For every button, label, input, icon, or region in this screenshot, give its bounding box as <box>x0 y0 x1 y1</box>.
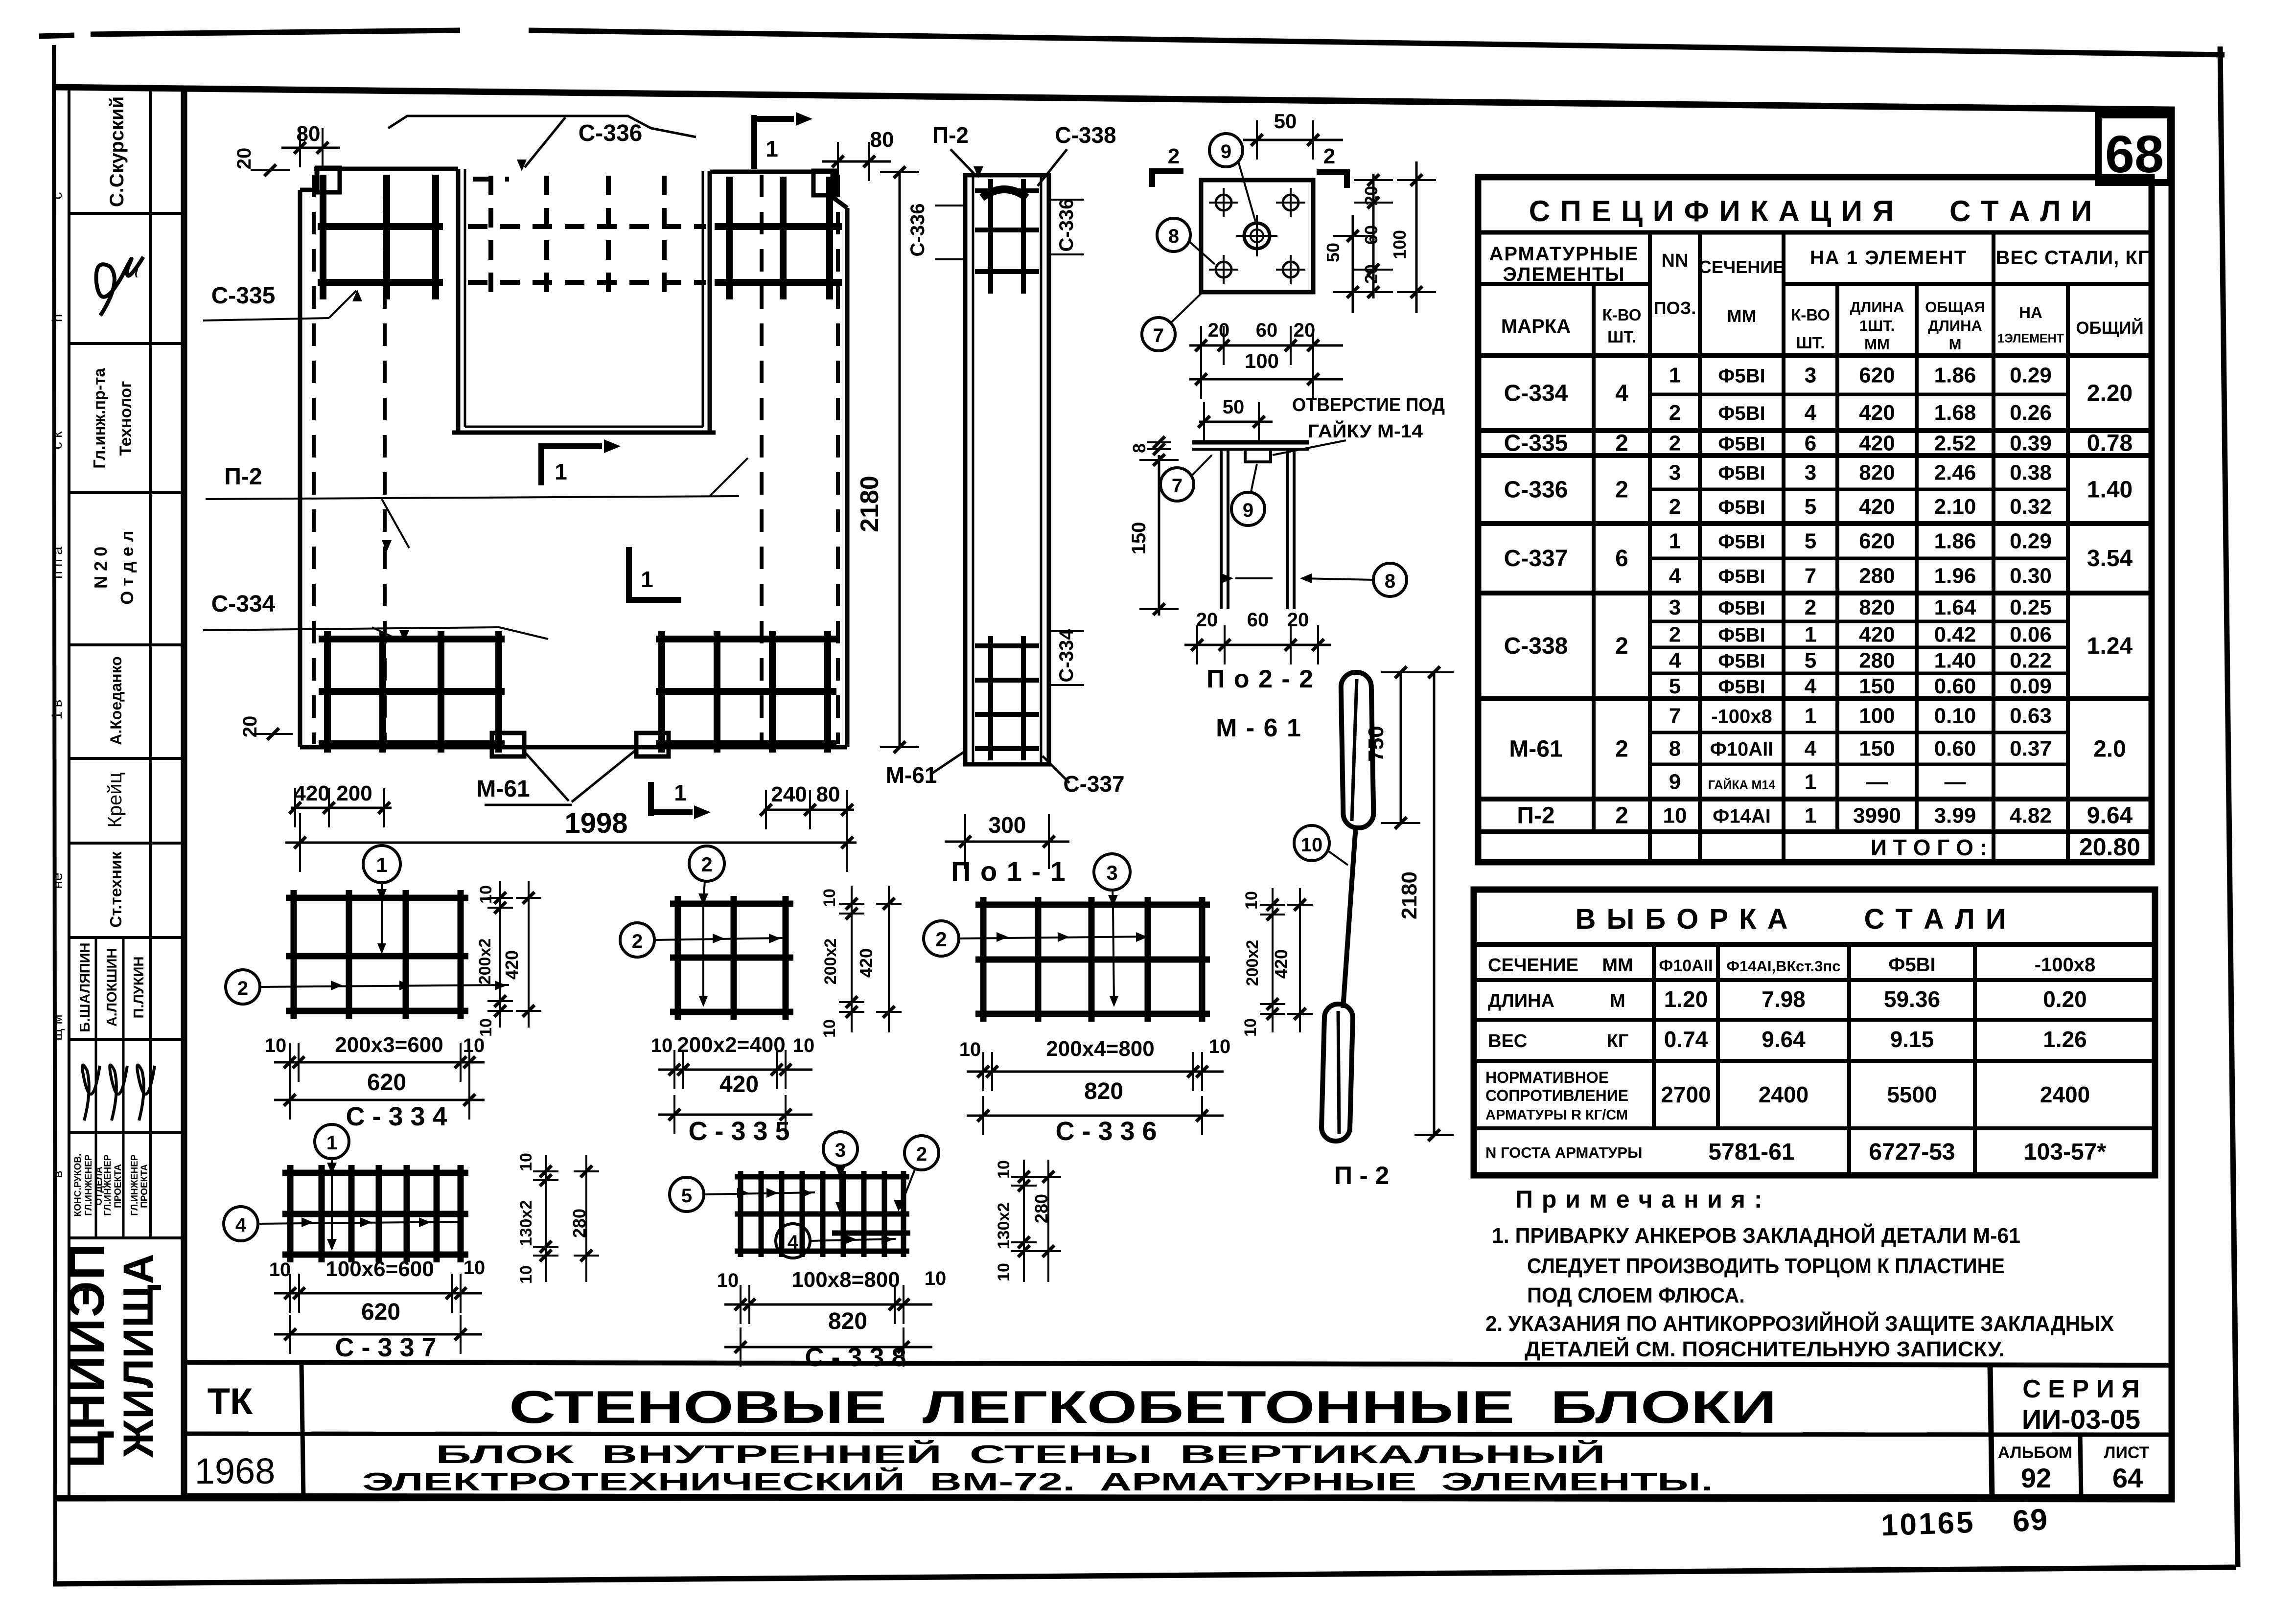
svg-text:200x2: 200x2 <box>476 938 494 985</box>
svg-text:4.82: 4.82 <box>2010 804 2052 828</box>
svg-text:10: 10 <box>820 889 839 907</box>
svg-text:1ЭЛЕМЕНТ: 1ЭЛЕМЕНТ <box>1997 332 2064 345</box>
svg-text:1: 1 <box>1805 770 1816 794</box>
svg-text:1ШТ.: 1ШТ. <box>1859 317 1895 334</box>
svg-text:М-61: М-61 <box>476 776 530 802</box>
svg-text:1: 1 <box>1805 804 1816 828</box>
svg-text:КОНС.РУКОВ.: КОНС.РУКОВ. <box>73 1154 83 1217</box>
svg-text:С-337: С-337 <box>1504 546 1568 572</box>
svg-text:820: 820 <box>1859 461 1895 485</box>
svg-text:С-334: С-334 <box>211 591 276 617</box>
svg-text:69: 69 <box>2012 1503 2050 1539</box>
svg-text:1.64: 1.64 <box>1934 595 1976 619</box>
svg-text:420: 420 <box>1859 495 1895 519</box>
svg-text:БЛОК ВНУТРЕННЕЙ СТЕНЫ ВЕРТИ: БЛОК ВНУТРЕННЕЙ СТЕНЫ ВЕРТИКАЛЬНЫЙ <box>436 1440 1605 1469</box>
svg-text:10: 10 <box>925 1268 947 1289</box>
svg-text:не: не <box>49 872 66 889</box>
title block bottom line <box>54 1497 2172 1498</box>
svg-text:1 в: 1 в <box>49 700 65 720</box>
svg-text:С-336: С-336 <box>907 204 928 257</box>
svg-text:620: 620 <box>1859 364 1895 388</box>
svg-text:с к: с к <box>49 431 65 449</box>
sheet bottom edge line <box>53 1567 2236 1584</box>
svg-text:4: 4 <box>1669 649 1681 673</box>
По 1-1 top mesh bars <box>975 188 1039 193</box>
svg-text:ЭЛЕМЕНТЫ: ЭЛЕМЕНТЫ <box>1503 264 1625 285</box>
svg-text:2.46: 2.46 <box>1934 461 1976 485</box>
mesh С-335 top-left horizontals <box>318 223 443 230</box>
svg-text:С - 3 3 8: С - 3 3 8 <box>805 1343 906 1372</box>
svg-text:П-2: П-2 <box>224 464 262 490</box>
stamp signatures <box>82 1065 100 1121</box>
svg-text:9: 9 <box>1669 770 1681 794</box>
svg-text:НА: НА <box>2019 303 2042 321</box>
svg-text:М: М <box>1949 336 1962 353</box>
С-338 circle 4 <box>776 1224 810 1258</box>
svg-text:750: 750 <box>1364 726 1388 761</box>
svg-text:щ м: щ м <box>49 1014 65 1041</box>
svg-text:2: 2 <box>1615 736 1628 762</box>
svg-text:ПРОЕКТА: ПРОЕКТА <box>139 1164 150 1208</box>
svg-text:Ф10АII: Ф10АII <box>1710 739 1774 760</box>
svg-text:М-61: М-61 <box>886 762 937 788</box>
svg-text:ЭЛЕКТРОТЕХНИЧЕСКИЙ ВМ-72. АР: ЭЛЕКТРОТЕХНИЧЕСКИЙ ВМ-72. АРМАТУРНЫЕ ЭЛЕ… <box>362 1467 1713 1496</box>
svg-text:ДЛИНА: ДЛИНА <box>1928 317 1982 334</box>
svg-text:9.64: 9.64 <box>2087 803 2133 829</box>
stamp names Шаляпин Локшин Лукин <box>95 938 97 1133</box>
svg-text:20: 20 <box>233 148 255 170</box>
svg-text:10: 10 <box>464 1257 486 1279</box>
svg-text:1.40: 1.40 <box>2087 477 2133 503</box>
svg-text:0.39: 0.39 <box>2010 432 2052 456</box>
top-left corner plate <box>317 168 340 192</box>
svg-text:0.78: 0.78 <box>2087 431 2133 457</box>
svg-text:ПОД СЛОЕМ ФЛЮСА.: ПОД СЛОЕМ ФЛЮСА. <box>1527 1283 1745 1307</box>
svg-text:К-ВО: К-ВО <box>1791 306 1830 324</box>
svg-text:2180: 2180 <box>1397 871 1421 919</box>
svg-text:5: 5 <box>1805 649 1816 673</box>
svg-text:6727-53: 6727-53 <box>1869 1139 1955 1165</box>
svg-text:Ф5ВI: Ф5ВI <box>1718 625 1765 646</box>
svg-text:2: 2 <box>916 1144 927 1165</box>
svg-text:1: 1 <box>555 459 567 484</box>
svg-text:С - 3 3 7: С - 3 3 7 <box>335 1333 436 1362</box>
П-2 dashed bar right outer <box>836 175 840 744</box>
С-338 extra partial bar <box>832 1231 910 1236</box>
panel outline right edge <box>845 208 850 747</box>
svg-text:Технолог: Технолог <box>116 381 135 456</box>
П-2 hairpin bottom loop inner wire <box>1338 1011 1339 1134</box>
svg-text:ПОЗ.: ПОЗ. <box>1654 298 1696 318</box>
М-61 label circle 7 <box>1142 318 1175 351</box>
svg-text:П о 1 - 1: П о 1 - 1 <box>951 856 1066 887</box>
svg-text:130x2: 130x2 <box>517 1200 535 1247</box>
sheet number box 68 <box>2098 115 2171 183</box>
svg-text:И Т О Г О :: И Т О Г О : <box>1871 835 1987 860</box>
svg-text:0.60: 0.60 <box>1934 674 1976 698</box>
svg-text:200x2=400: 200x2=400 <box>677 1033 785 1057</box>
stamp column vertical lines <box>68 88 70 1496</box>
С-336 circle 3 top <box>1094 854 1130 890</box>
frame top line extension over stamp column <box>53 87 184 89</box>
svg-text:0.60: 0.60 <box>1934 737 1976 761</box>
П-2 hairpin top loop inner wire <box>1352 679 1357 821</box>
svg-text:150: 150 <box>1859 674 1895 698</box>
svg-text:4: 4 <box>788 1232 799 1253</box>
svg-text:Ф14АI: Ф14АI <box>1713 806 1771 827</box>
svg-text:5: 5 <box>1805 529 1816 553</box>
svg-text:20: 20 <box>1294 320 1316 341</box>
svg-text:100x6=600: 100x6=600 <box>325 1257 434 1281</box>
С-336 circle 2 left <box>924 921 959 956</box>
svg-text:С-334: С-334 <box>1056 629 1077 683</box>
svg-text:2: 2 <box>1615 633 1628 659</box>
svg-text:0.25: 0.25 <box>2010 595 2052 619</box>
svg-text:240: 240 <box>771 782 807 806</box>
svg-text:150: 150 <box>1859 737 1895 761</box>
svg-text:9.64: 9.64 <box>1762 1027 1806 1052</box>
П-2 dashed bar left outer <box>312 175 316 744</box>
svg-text:3: 3 <box>1669 461 1681 485</box>
П-2 dim 750 <box>1400 672 1402 823</box>
svg-text:0.63: 0.63 <box>2010 704 2052 728</box>
panel outline top edge right segment <box>710 170 834 174</box>
svg-text:2: 2 <box>1615 477 1628 503</box>
svg-text:9: 9 <box>1221 141 1231 162</box>
svg-text:1: 1 <box>641 567 653 592</box>
svg-text:10: 10 <box>1209 1036 1231 1057</box>
svg-text:10: 10 <box>517 1153 535 1171</box>
svg-text:Ф5ВI: Ф5ВI <box>1888 954 1935 976</box>
svg-text:П-2: П-2 <box>1517 803 1554 829</box>
М-61 center nut <box>1244 223 1270 249</box>
svg-text:7.98: 7.98 <box>1762 986 1806 1012</box>
svg-text:420: 420 <box>1859 623 1895 647</box>
svg-text:9.15: 9.15 <box>1890 1027 1934 1052</box>
svg-text:Крейц: Крейц <box>104 772 126 827</box>
svg-text:50: 50 <box>1323 243 1343 262</box>
svg-text:1: 1 <box>674 780 687 805</box>
svg-text:1.86: 1.86 <box>1934 364 1976 388</box>
svg-text:5: 5 <box>681 1185 692 1207</box>
svg-text:СОПРОТИВЛЕНИЕ: СОПРОТИВЛЕНИЕ <box>1485 1087 1628 1104</box>
М-61 label circle 8 <box>1157 218 1190 252</box>
М-61 leader V <box>524 752 569 801</box>
title block mid line <box>184 1434 2172 1435</box>
diagram С-336 mesh <box>980 897 987 1022</box>
svg-text:С-335: С-335 <box>1504 431 1568 457</box>
svg-text:С-338: С-338 <box>1055 122 1116 148</box>
svg-text:1.40: 1.40 <box>1934 649 1976 673</box>
svg-text:С-336: С-336 <box>1056 199 1077 252</box>
svg-text:2: 2 <box>632 931 643 952</box>
svg-text:А.ЛОКШИН: А.ЛОКШИН <box>104 948 120 1027</box>
svg-text:Ф10АII: Ф10АII <box>1659 957 1713 975</box>
svg-text:0.26: 0.26 <box>2010 401 2052 425</box>
svg-text:130x2: 130x2 <box>995 1203 1013 1249</box>
mesh top-right verticals <box>726 177 733 299</box>
svg-text:АЛЬБОМ: АЛЬБОМ <box>1998 1443 2072 1462</box>
svg-text:1998: 1998 <box>564 807 627 839</box>
svg-text:0.30: 0.30 <box>2010 564 2052 588</box>
svg-text:3: 3 <box>1805 461 1816 485</box>
svg-text:ДЛИНА: ДЛИНА <box>1850 298 1904 316</box>
svg-text:280: 280 <box>1859 649 1895 673</box>
svg-text:200: 200 <box>336 781 372 805</box>
svg-text:Ф5ВI: Ф5ВI <box>1718 366 1765 387</box>
svg-text:Ф5ВI: Ф5ВI <box>1718 531 1765 553</box>
svg-text:Ф5ВI: Ф5ВI <box>1718 463 1765 484</box>
svg-text:1: 1 <box>1669 364 1681 388</box>
svg-text:АРМАТУРЫ R КГ/СМ: АРМАТУРЫ R КГ/СМ <box>1485 1107 1628 1123</box>
svg-text:10: 10 <box>463 1035 485 1056</box>
svg-text:П.ЛУКИН: П.ЛУКИН <box>131 957 147 1019</box>
svg-text:ГЛ.ИНЖЕНЕР: ГЛ.ИНЖЕНЕР <box>103 1154 113 1216</box>
svg-text:5: 5 <box>1805 495 1816 519</box>
svg-text:4: 4 <box>1805 674 1817 698</box>
svg-text:М-61: М-61 <box>1509 736 1562 762</box>
section mark 1 bottom <box>648 782 654 816</box>
svg-text:Гл.инж.пр-та: Гл.инж.пр-та <box>90 368 108 469</box>
svg-text:2: 2 <box>237 978 248 999</box>
svg-text:С-334: С-334 <box>1504 381 1568 407</box>
svg-text:Ф5ВI: Ф5ВI <box>1718 566 1765 588</box>
svg-text:620: 620 <box>361 1299 400 1325</box>
М-61 side circle 9 <box>1231 492 1265 526</box>
svg-text:60: 60 <box>1247 609 1269 631</box>
svg-text:620: 620 <box>367 1070 406 1096</box>
section mark 2 right of М-61 <box>1344 169 1350 188</box>
svg-text:2. УКАЗАНИЯ ПО АНТИКОРРОЗИЙНОЙ: 2. УКАЗАНИЯ ПО АНТИКОРРОЗИЙНОЙ ЗАЩИТЕ ЗА… <box>1485 1311 2114 1336</box>
svg-text:2: 2 <box>1669 401 1681 425</box>
svg-text:10: 10 <box>717 1270 739 1291</box>
svg-text:1: 1 <box>376 853 387 876</box>
С-334 circle 1 <box>363 846 400 883</box>
svg-text:100: 100 <box>1390 230 1410 259</box>
svg-text:ММ: ММ <box>1727 306 1757 326</box>
svg-text:100x8=800: 100x8=800 <box>791 1268 900 1292</box>
svg-text:П - 2: П - 2 <box>1334 1162 1390 1190</box>
svg-text:С-337: С-337 <box>1063 771 1124 797</box>
svg-text:ТК: ТК <box>208 1381 253 1422</box>
svg-text:А.Коеданко: А.Коеданко <box>107 656 125 745</box>
svg-text:П р и м е ч а н и я :: П р и м е ч а н и я : <box>1515 1186 1763 1213</box>
svg-text:200x3=600: 200x3=600 <box>335 1033 443 1057</box>
По 1-1 bottom mesh bars <box>975 643 1039 648</box>
svg-text:Ф14АI,ВКст.3пс: Ф14АI,ВКст.3пс <box>1727 958 1841 975</box>
svg-text:0.20: 0.20 <box>2043 986 2087 1012</box>
М-61 side view legs <box>1220 449 1223 609</box>
svg-text:420: 420 <box>1859 401 1895 425</box>
svg-text:4: 4 <box>1805 737 1817 761</box>
svg-text:200x2: 200x2 <box>1243 940 1262 986</box>
sheet left edge line <box>54 45 55 1585</box>
svg-text:ОТВЕРСТИЕ ПОД: ОТВЕРСТИЕ ПОД <box>1292 395 1445 415</box>
svg-text:20: 20 <box>1208 320 1230 341</box>
section mark 1 lower-mid <box>626 547 632 603</box>
svg-text:АРМАТУРНЫЕ: АРМАТУРНЫЕ <box>1489 243 1639 265</box>
svg-text:10: 10 <box>651 1035 673 1056</box>
diagram С-337 mesh <box>287 1165 294 1262</box>
svg-text:10: 10 <box>995 1263 1013 1281</box>
svg-text:ММ: ММ <box>1602 955 1633 976</box>
П-2 dashed bar left inner <box>383 175 387 744</box>
svg-text:103-57*: 103-57* <box>2024 1139 2106 1165</box>
svg-text:1.26: 1.26 <box>2043 1027 2087 1052</box>
svg-text:50: 50 <box>1274 110 1297 133</box>
svg-text:420: 420 <box>1859 432 1895 456</box>
svg-text:ОБЩИЙ: ОБЩИЙ <box>2076 318 2143 338</box>
panel outline top edge left segment <box>314 167 458 171</box>
svg-text:5781-61: 5781-61 <box>1708 1139 1794 1165</box>
svg-text:~: ~ <box>124 265 150 278</box>
svg-text:п п а: п п а <box>49 547 66 579</box>
spec table СПЕЦИФИКАЦИЯ СТАЛИ <box>1478 177 2152 862</box>
svg-text:64: 64 <box>2112 1463 2143 1493</box>
svg-text:80: 80 <box>870 128 894 152</box>
panel outline bottom edge <box>300 745 847 750</box>
svg-text:3990: 3990 <box>1853 804 1901 828</box>
svg-text:4: 4 <box>1805 401 1817 425</box>
svg-text:92: 92 <box>2021 1463 2051 1493</box>
П-2 dim 2180 <box>1433 672 1436 1135</box>
svg-text:П-2: П-2 <box>932 122 969 148</box>
svg-text:2: 2 <box>935 928 947 951</box>
svg-text:20.80: 20.80 <box>2079 833 2140 861</box>
svg-text:ШТ.: ШТ. <box>1796 334 1825 352</box>
svg-text:2: 2 <box>1669 432 1681 456</box>
svg-text:Ф5ВI: Ф5ВI <box>1718 434 1765 455</box>
stamp signature squiggle <box>96 257 143 316</box>
diagram С-338 mesh <box>738 1171 743 1257</box>
svg-text:10: 10 <box>269 1259 291 1281</box>
svg-text:СЕЧЕНИЕ: СЕЧЕНИЕ <box>1488 955 1578 976</box>
С-337 circle 1 <box>315 1124 349 1159</box>
svg-text:2400: 2400 <box>2040 1082 2090 1107</box>
svg-text:СЕЧЕНИЕ: СЕЧЕНИЕ <box>1699 257 1785 277</box>
svg-text:4: 4 <box>235 1214 247 1236</box>
svg-text:820: 820 <box>1859 595 1895 619</box>
svg-text:0.06: 0.06 <box>2010 623 2052 647</box>
title block top line <box>184 1362 2172 1365</box>
svg-text:7: 7 <box>1805 564 1816 588</box>
С-337 circle 4 <box>224 1207 258 1241</box>
svg-text:10: 10 <box>265 1035 287 1056</box>
svg-text:С-338: С-338 <box>1504 633 1568 659</box>
svg-text:О т д е л: О т д е л <box>117 530 137 604</box>
mesh С-336 dashed horizontals <box>468 224 706 229</box>
notch opening bottom double line <box>452 431 716 435</box>
svg-text:Ф5ВI: Ф5ВI <box>1718 597 1765 619</box>
svg-text:С - 3 3 6: С - 3 3 6 <box>1055 1117 1157 1146</box>
М-61 label circle 9 <box>1209 134 1243 167</box>
svg-text:8: 8 <box>1669 737 1681 761</box>
svg-text:7: 7 <box>1669 704 1681 728</box>
svg-text:ИИ-03-05: ИИ-03-05 <box>2022 1404 2140 1435</box>
svg-text:1: 1 <box>1805 623 1816 647</box>
svg-text:-100x8: -100x8 <box>1711 706 1772 728</box>
svg-text:100: 100 <box>1859 704 1895 728</box>
svg-text:2: 2 <box>1805 595 1816 619</box>
svg-text:10: 10 <box>517 1265 535 1284</box>
svg-text:НОРМАТИВНОЕ: НОРМАТИВНОЕ <box>1485 1069 1609 1086</box>
svg-text:С.Скурский: С.Скурский <box>106 96 128 207</box>
section mark 1 mid-panel right <box>538 443 544 485</box>
svg-text:ДЛИНА: ДЛИНА <box>1488 991 1554 1011</box>
svg-text:80: 80 <box>816 782 840 806</box>
svg-text:Ф5ВI: Ф5ВI <box>1718 403 1765 424</box>
mesh С-335 top-left verticals <box>320 175 326 299</box>
М-61 plate anchor crosses <box>1216 195 1231 210</box>
panel outline left edge <box>298 190 302 747</box>
svg-text:8: 8 <box>1385 571 1395 592</box>
svg-text:ОБЩАЯ: ОБЩАЯ <box>1925 298 1985 316</box>
svg-text:1.86: 1.86 <box>1934 529 1976 553</box>
П-2 circle 10 <box>1294 825 1329 861</box>
svg-text:6: 6 <box>1805 432 1816 456</box>
svg-text:420: 420 <box>502 950 522 980</box>
sheet right edge line <box>2220 46 2238 1567</box>
svg-text:420: 420 <box>719 1072 759 1098</box>
svg-text:10: 10 <box>995 1160 1013 1179</box>
svg-text:ВЕС: ВЕС <box>1488 1031 1527 1052</box>
svg-text:0.38: 0.38 <box>2010 461 2052 485</box>
svg-text:0.22: 0.22 <box>2010 649 2052 673</box>
М-61 side circle 8 <box>1373 563 1407 596</box>
С-338 circle 2 <box>904 1136 939 1170</box>
svg-text:С-336: С-336 <box>1504 477 1568 503</box>
svg-text:820: 820 <box>1084 1078 1123 1104</box>
П-2 dashed bar right inner <box>760 175 764 744</box>
mesh С-336 dashed grid in notch area verticals <box>488 176 493 298</box>
svg-text:10: 10 <box>1663 804 1687 828</box>
svg-text:с: с <box>49 192 65 200</box>
М-61 side circle 7 <box>1160 468 1194 501</box>
svg-text:4: 4 <box>1615 381 1628 407</box>
svg-text:10: 10 <box>820 1019 839 1038</box>
svg-text:h: h <box>49 314 66 322</box>
svg-text:С-336: С-336 <box>579 120 643 146</box>
svg-text:7: 7 <box>1172 475 1182 497</box>
svg-text:В Ы Б О Р К А С Т А Л И: В Ы Б О Р К А С Т А Л И <box>1575 903 2007 935</box>
svg-text:С - 3 3 5: С - 3 3 5 <box>688 1117 789 1146</box>
svg-text:ПРОЕКТА: ПРОЕКТА <box>113 1164 123 1208</box>
svg-text:ВЕС СТАЛИ, КГ: ВЕС СТАЛИ, КГ <box>1996 247 2150 269</box>
svg-text:420: 420 <box>856 948 876 978</box>
svg-text:КГ: КГ <box>1607 1031 1629 1052</box>
svg-text:П о 2 - 2: П о 2 - 2 <box>1206 665 1314 693</box>
svg-text:2700: 2700 <box>1661 1082 1711 1107</box>
svg-text:ЦНИИЭП: ЦНИИЭП <box>58 1242 115 1468</box>
svg-text:200x2: 200x2 <box>821 938 840 985</box>
svg-text:10: 10 <box>477 1018 495 1037</box>
svg-text:10165: 10165 <box>1880 1506 1976 1543</box>
svg-text:-100x8: -100x8 <box>2035 954 2096 976</box>
svg-text:9: 9 <box>1243 500 1253 521</box>
svg-text:4: 4 <box>1669 564 1681 588</box>
svg-text:0.37: 0.37 <box>2010 737 2052 761</box>
ТК 1968 divider <box>301 1365 303 1497</box>
svg-text:N 2 0: N 2 0 <box>91 547 111 589</box>
С-334 circle 2 <box>226 970 260 1004</box>
top-right corner plate <box>813 171 836 195</box>
П-2 hairpin top loop <box>1341 672 1374 828</box>
П-2 hook at top <box>982 189 1027 198</box>
svg-text:2: 2 <box>701 853 712 876</box>
svg-text:2.20: 2.20 <box>2087 381 2133 407</box>
svg-text:С - 3 3 4: С - 3 3 4 <box>346 1102 447 1131</box>
По 1-1 column outline <box>965 175 1049 764</box>
